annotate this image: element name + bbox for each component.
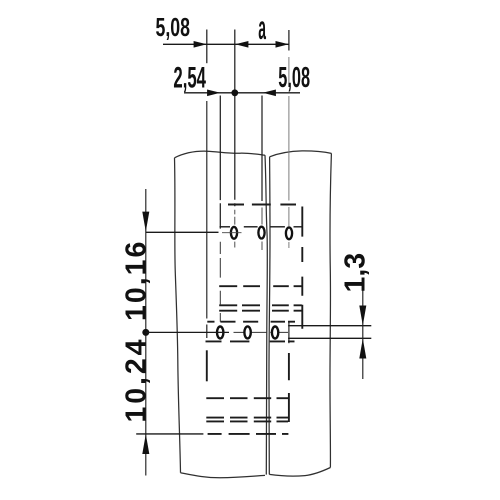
svg-text:10,24: 10,24 bbox=[121, 337, 153, 423]
svg-text:1,3: 1,3 bbox=[340, 253, 372, 293]
svg-text:5,08: 5,08 bbox=[278, 61, 310, 93]
svg-text:a: a bbox=[258, 11, 266, 48]
svg-text:5,08: 5,08 bbox=[156, 12, 191, 41]
svg-text:10,16: 10,16 bbox=[121, 240, 153, 321]
svg-text:2,54: 2,54 bbox=[173, 62, 206, 95]
